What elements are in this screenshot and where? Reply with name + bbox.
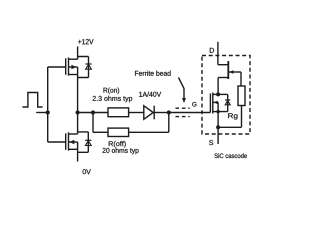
- ferrite bead dashed lines: [176, 108, 190, 116]
- wire Rg bottom: [218, 106, 241, 128]
- resistor Rg: [238, 86, 245, 106]
- JFET Q3: [218, 61, 241, 79]
- node cascode mid: [216, 92, 220, 96]
- node input junction: [46, 110, 50, 114]
- node R(off) branch: [91, 110, 95, 114]
- wire Q2 drain up to node: [77, 113, 79, 135]
- transistor Q1 high-side driver MOSFET: [66, 57, 78, 75]
- label Ferrite bead: [135, 71, 171, 76]
- wire gate bottom: [48, 141, 66, 143]
- resistor R(off): [108, 128, 129, 136]
- transistor Q4 LV MOSFET: [210, 93, 227, 114]
- label SiC cascode: [214, 153, 246, 158]
- label +12V: [78, 39, 93, 44]
- node merge: [167, 110, 171, 114]
- wire R(off) return up: [168, 113, 170, 133]
- body diode of Q2: [78, 132, 92, 152]
- wire gate bus: [47, 67, 49, 142]
- input pulse symbol: [22, 93, 42, 108]
- label G: [192, 102, 196, 107]
- node driver output: [76, 110, 80, 114]
- wire R(off) feed: [93, 131, 108, 133]
- wire gate top: [48, 66, 66, 68]
- label 1A/40V: [139, 92, 161, 97]
- transistor Q2 low-side driver MOSFET: [66, 132, 78, 150]
- diode D1 1A/40V: [144, 106, 154, 120]
- wire to cascode gate: [169, 112, 211, 114]
- body diode of Q1: [78, 57, 92, 78]
- wire source terminal: [217, 112, 219, 144]
- wire R(off) out: [129, 131, 169, 133]
- wire +12V supply: [77, 47, 79, 60]
- label 2.3 ohms typ: [93, 96, 133, 103]
- resistor R(on): [108, 108, 129, 117]
- label S: [209, 140, 213, 145]
- wire diode to merge node: [154, 112, 169, 114]
- wire input stub: [36, 112, 48, 114]
- wire R(on) to diode: [129, 112, 144, 114]
- wire JFET gate to Rg: [240, 72, 242, 86]
- wire output node line: [78, 112, 108, 114]
- node Q4 source tie: [216, 110, 219, 113]
- wire Q1 source to output node: [77, 75, 79, 113]
- wire R(off) branch down: [92, 113, 94, 133]
- wire JFET source to Q4 drain: [217, 78, 219, 95]
- label Rg: [228, 113, 237, 119]
- ferrite bead pointer arrow: [179, 78, 185, 99]
- body diode of Q4: [218, 94, 230, 111]
- label R(on): [104, 88, 120, 95]
- wire drain terminal: [217, 42, 219, 65]
- cascode box dashed: [202, 56, 250, 135]
- wire Q2 source down to 0V: [77, 149, 79, 161]
- label 20 ohms typ: [103, 148, 139, 155]
- label D: [210, 48, 214, 53]
- label 0V: [83, 169, 91, 174]
- node source junction: [216, 125, 220, 129]
- label R(off): [109, 141, 126, 148]
